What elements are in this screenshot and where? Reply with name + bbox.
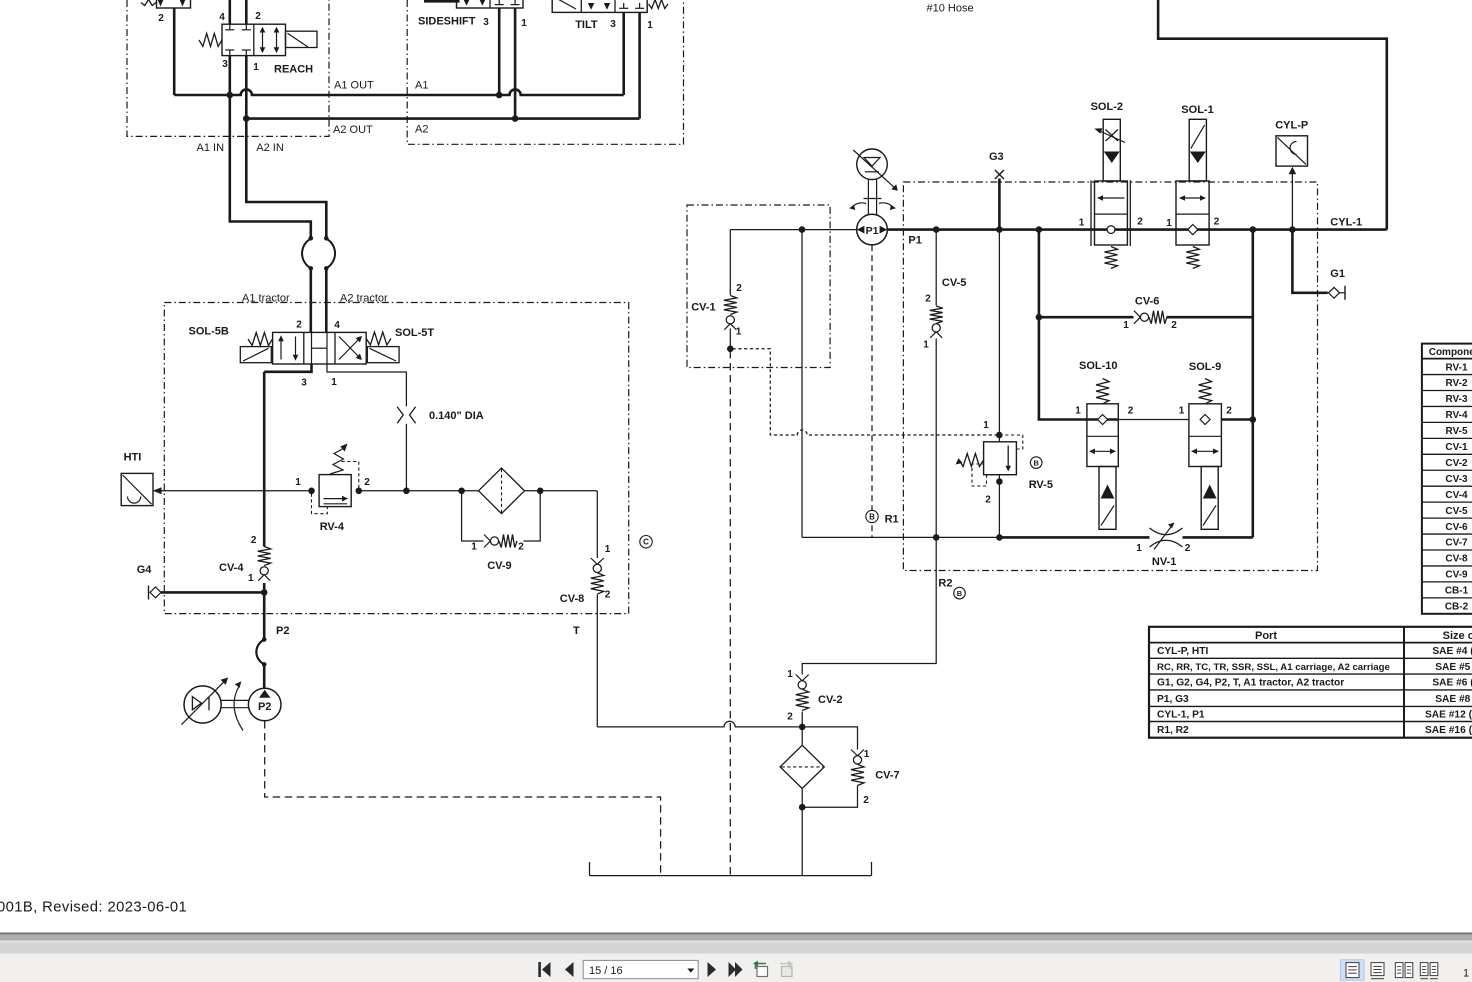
svg-text:2: 2 — [255, 11, 261, 22]
svg-text:Port: Port — [1255, 630, 1277, 642]
svg-text:2: 2 — [925, 294, 931, 305]
svg-text:CV-8: CV-8 — [560, 593, 584, 605]
svg-text:3: 3 — [301, 378, 307, 389]
svg-text:CB-1: CB-1 — [1445, 586, 1469, 597]
svg-text:1: 1 — [253, 62, 259, 73]
svg-text:A1 IN: A1 IN — [197, 142, 225, 154]
svg-text:R1, R2: R1, R2 — [1157, 725, 1189, 736]
svg-text:15 / 16: 15 / 16 — [589, 965, 623, 977]
svg-text:C: C — [643, 538, 649, 547]
svg-text:NV-1: NV-1 — [1152, 556, 1176, 568]
svg-text:CV-7: CV-7 — [1445, 538, 1468, 549]
svg-text:A2: A2 — [415, 124, 428, 136]
svg-text:SAE #8 (3/4-16): SAE #8 (3/4-16) — [1435, 694, 1472, 705]
svg-text:SAE #5 (1/2-20): SAE #5 (1/2-20) — [1435, 662, 1472, 673]
svg-text:P1: P1 — [866, 225, 879, 237]
svg-text:A2 IN: A2 IN — [256, 142, 284, 154]
svg-text:0.140" DIA: 0.140" DIA — [429, 410, 484, 422]
svg-text:CV-8: CV-8 — [1445, 554, 1468, 565]
svg-text:1: 1 — [736, 327, 742, 338]
svg-text:SOL-2: SOL-2 — [1091, 101, 1123, 113]
svg-text:P1: P1 — [908, 235, 921, 247]
svg-text:2: 2 — [158, 13, 164, 24]
svg-text:CV-7: CV-7 — [875, 770, 899, 782]
svg-text:SOL-5B: SOL-5B — [189, 326, 229, 338]
svg-text:4: 4 — [219, 12, 225, 23]
svg-text:001B, Revised: 2023-06-01: 001B, Revised: 2023-06-01 — [0, 900, 187, 916]
svg-text:2: 2 — [863, 795, 869, 806]
svg-text:CB-2: CB-2 — [1445, 602, 1469, 613]
svg-text:B: B — [1033, 458, 1039, 467]
svg-text:CV-6: CV-6 — [1135, 296, 1159, 308]
svg-text:2: 2 — [518, 542, 524, 553]
svg-text:G3: G3 — [989, 151, 1004, 163]
svg-text:CV-4: CV-4 — [219, 562, 244, 574]
svg-text:RV-5: RV-5 — [1029, 479, 1053, 491]
svg-text:2: 2 — [364, 477, 370, 488]
svg-text:2: 2 — [787, 712, 793, 723]
svg-text:1: 1 — [1463, 968, 1469, 980]
svg-text:1: 1 — [864, 749, 870, 760]
svg-text:B: B — [869, 512, 875, 521]
svg-text:4: 4 — [334, 320, 340, 331]
svg-text:2: 2 — [1226, 406, 1232, 417]
svg-text:3: 3 — [483, 17, 489, 28]
svg-text:SAE #12 (1-1/16-12): SAE #12 (1-1/16-12) — [1425, 710, 1472, 721]
svg-text:A2 tractor: A2 tractor — [340, 293, 388, 305]
svg-text:1: 1 — [521, 18, 527, 29]
svg-text:2: 2 — [296, 320, 302, 331]
svg-text:CYL-P, HTI: CYL-P, HTI — [1157, 646, 1208, 657]
svg-text:1: 1 — [1179, 406, 1185, 417]
svg-text:3: 3 — [610, 19, 616, 30]
svg-text:RC, RR, TC, TR, SSR, SSL, A1 c: RC, RR, TC, TR, SSR, SSL, A1 carriage, A… — [1157, 662, 1390, 673]
svg-text:A2 OUT: A2 OUT — [333, 124, 373, 136]
svg-text:2: 2 — [736, 283, 742, 294]
svg-text:3: 3 — [222, 59, 228, 70]
svg-text:CV-5: CV-5 — [942, 277, 966, 289]
svg-text:CV-6: CV-6 — [1445, 522, 1468, 533]
svg-text:1: 1 — [923, 340, 929, 351]
svg-text:G1: G1 — [1330, 268, 1345, 280]
svg-text:2: 2 — [1171, 320, 1177, 331]
svg-text:G4: G4 — [137, 564, 153, 576]
svg-text:2: 2 — [251, 535, 257, 546]
svg-text:G1, G2, G4, P2, T, A1 tractor,: G1, G2, G4, P2, T, A1 tractor, A2 tracto… — [1157, 678, 1344, 689]
svg-text:P1, G3: P1, G3 — [1157, 694, 1189, 705]
svg-text:1: 1 — [983, 420, 989, 431]
svg-text:1: 1 — [295, 477, 301, 488]
svg-text:SOL-1: SOL-1 — [1181, 104, 1213, 116]
svg-text:CYL-1: CYL-1 — [1330, 217, 1362, 229]
svg-text:CV-5: CV-5 — [1445, 506, 1468, 517]
svg-text:SOL-9: SOL-9 — [1189, 361, 1221, 373]
svg-text:CV-1: CV-1 — [691, 301, 715, 313]
svg-text:1: 1 — [1079, 218, 1085, 229]
svg-text:RV-1: RV-1 — [1445, 362, 1467, 373]
svg-text:2: 2 — [1214, 217, 1220, 228]
svg-text:SOL-5T: SOL-5T — [395, 327, 434, 339]
svg-text:2: 2 — [605, 590, 611, 601]
svg-text:REACH: REACH — [274, 64, 313, 76]
svg-text:1: 1 — [1075, 406, 1081, 417]
svg-text:1: 1 — [248, 573, 254, 584]
svg-text:R2: R2 — [938, 578, 952, 590]
svg-text:1: 1 — [787, 669, 793, 680]
svg-text:P2: P2 — [258, 701, 271, 713]
svg-text:B: B — [957, 589, 963, 598]
svg-text:2: 2 — [1137, 217, 1143, 228]
svg-text:1: 1 — [331, 377, 337, 388]
svg-text:1: 1 — [1136, 543, 1142, 554]
svg-text:1: 1 — [647, 20, 653, 31]
svg-text:SAE #6 (9/16-18): SAE #6 (9/16-18) — [1432, 678, 1472, 689]
svg-text:Size code: Size code — [1443, 630, 1472, 642]
svg-text:HTI: HTI — [124, 452, 142, 464]
svg-text:SAE #4 (7/16-20): SAE #4 (7/16-20) — [1432, 646, 1472, 657]
svg-text:SAE #16 (1-5/16-12): SAE #16 (1-5/16-12) — [1425, 725, 1472, 736]
svg-text:#10 Hose: #10 Hose — [927, 3, 974, 15]
svg-text:2: 2 — [1185, 543, 1191, 554]
svg-text:CYL-P: CYL-P — [1275, 119, 1308, 131]
svg-text:RV-3: RV-3 — [1445, 394, 1467, 405]
svg-text:RV-4: RV-4 — [320, 521, 345, 533]
svg-text:A1 tractor: A1 tractor — [242, 293, 290, 305]
svg-text:A1: A1 — [415, 80, 428, 92]
svg-text:1: 1 — [1123, 320, 1129, 331]
svg-text:2: 2 — [985, 495, 991, 506]
svg-text:CV-9: CV-9 — [487, 560, 511, 572]
svg-text:RV-2: RV-2 — [1445, 378, 1467, 389]
svg-text:R1: R1 — [885, 514, 899, 526]
svg-text:T: T — [573, 625, 580, 637]
svg-text:P2: P2 — [276, 625, 289, 637]
svg-text:RV-5: RV-5 — [1445, 426, 1467, 437]
svg-text:CV-4: CV-4 — [1445, 490, 1468, 501]
svg-text:Component: Component — [1429, 347, 1472, 358]
svg-text:SOL-10: SOL-10 — [1079, 360, 1118, 372]
svg-text:CV-3: CV-3 — [1445, 474, 1468, 485]
svg-text:CV-9: CV-9 — [1445, 570, 1468, 581]
svg-text:TILT: TILT — [575, 19, 598, 31]
svg-text:CYL-1, P1: CYL-1, P1 — [1157, 710, 1205, 721]
svg-text:CV-1: CV-1 — [1445, 442, 1468, 453]
svg-text:RV-4: RV-4 — [1445, 410, 1467, 421]
svg-text:1: 1 — [1166, 218, 1172, 229]
svg-text:SIDESHIFT: SIDESHIFT — [418, 16, 476, 28]
svg-text:CV-2: CV-2 — [1445, 458, 1468, 469]
svg-text:A1 OUT: A1 OUT — [334, 80, 374, 92]
svg-text:1: 1 — [605, 544, 611, 555]
svg-text:2: 2 — [1128, 406, 1134, 417]
svg-text:1: 1 — [471, 542, 477, 553]
svg-text:CV-2: CV-2 — [818, 694, 842, 706]
